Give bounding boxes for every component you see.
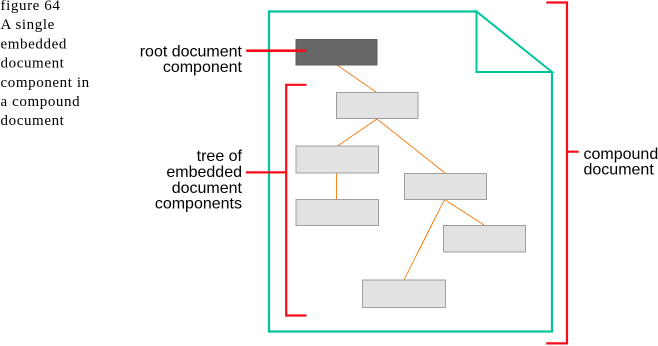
svg-text:document: document	[1, 56, 65, 72]
right bracket (compound document)	[546, 3, 567, 344]
root document component (dark rectangle)	[296, 40, 377, 66]
label: tree of embedded document components	[155, 148, 243, 213]
leader line: tree label (left bracket middle arm)	[246, 171, 287, 173]
svg-text:document: document	[172, 180, 243, 197]
leader line: compound document label (right bracket middle arm)	[566, 151, 579, 153]
svg-text:document: document	[1, 113, 65, 129]
svg-text:compound: compound	[584, 146, 658, 163]
compound document page outline	[269, 12, 552, 332]
svg-text:embedded: embedded	[1, 36, 67, 52]
svg-text:figure 64: figure 64	[1, 0, 61, 14]
label: compound document	[584, 146, 658, 179]
tree edge: node 4 to node 5	[445, 200, 485, 226]
tree edge: node 1 to node 2	[338, 119, 378, 146]
leader line: root document component label	[246, 49, 306, 52]
tree edge: root to node 1	[337, 65, 376, 92]
embedded component node 4	[405, 174, 487, 200]
svg-text:a compound: a compound	[1, 94, 81, 110]
embedded component node 2	[296, 146, 379, 173]
label: root document component	[140, 44, 243, 77]
embedded component node 3	[296, 200, 379, 226]
svg-text:A single: A single	[1, 17, 55, 33]
embedded component node 5	[444, 226, 526, 253]
svg-text:root document: root document	[140, 44, 243, 61]
svg-text:embedded: embedded	[166, 164, 242, 181]
embedded component node 1	[337, 93, 419, 119]
tree edge: node 4 to node 6	[404, 200, 445, 281]
svg-text:components: components	[155, 196, 242, 213]
left bracket (tree of embedded document components)	[286, 85, 306, 316]
tree edge: node 1 to node 4	[377, 119, 445, 173]
embedded component node 6	[363, 280, 446, 308]
folded (dog-ear) corner	[477, 12, 553, 73]
svg-text:component: component	[163, 59, 243, 76]
tree edge: node 2 to node 3	[336, 173, 338, 199]
svg-text:document: document	[584, 162, 655, 179]
svg-text:tree of: tree of	[197, 148, 243, 165]
figure caption: figure 64 A single embedded document component in a compound document	[1, 0, 90, 129]
svg-text:component in: component in	[1, 75, 90, 91]
